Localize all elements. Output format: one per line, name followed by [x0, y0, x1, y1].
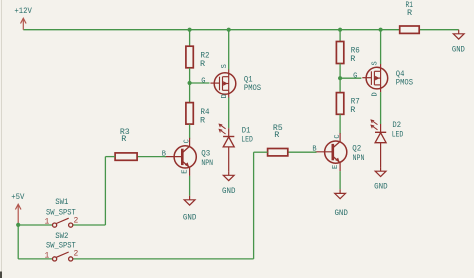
svg-text:NPN: NPN [201, 158, 213, 168]
svg-text:GND: GND [452, 45, 465, 55]
junction gate node Q4 [338, 76, 342, 80]
wire +5V to SW1 [18, 224, 52, 226]
pin label D Q1 [221, 94, 229, 98]
wire base Q3 [137, 156, 166, 158]
svg-text:R: R [200, 59, 205, 69]
transistor Q3 NPN [165, 138, 213, 176]
pin label B Q3 [162, 150, 166, 158]
resistor R3 [115, 127, 137, 160]
pin label E Q2 [332, 165, 340, 169]
junction rail/R2 [188, 28, 192, 32]
svg-text:S: S [372, 61, 380, 65]
svg-text:+5V: +5V [11, 192, 25, 202]
power +12V [14, 6, 32, 30]
power +5V [11, 192, 25, 225]
pin label G Q4 [353, 73, 357, 81]
svg-text:+12V: +12V [14, 6, 32, 16]
wire top +12V rail [23, 29, 458, 31]
ground below D2 [374, 167, 388, 192]
wire rail to Q4 source [380, 30, 382, 64]
transistor Q2 NPN [315, 133, 364, 171]
ground below D1 [222, 171, 236, 196]
svg-text:R: R [121, 134, 126, 144]
pin label E Q3 [181, 169, 189, 173]
diode D1 LED [219, 124, 253, 147]
svg-text:2: 2 [73, 250, 78, 259]
resistor R5 [268, 123, 288, 156]
svg-text:R: R [407, 8, 412, 18]
ground right of R1 [452, 30, 465, 55]
resistor R7 [336, 93, 359, 115]
svg-text:D: D [221, 94, 229, 98]
svg-text:G: G [353, 73, 357, 81]
ground below Q3 [183, 196, 197, 223]
wire gate Q1 [190, 82, 210, 84]
wire R3 to SW1 [73, 157, 115, 225]
pin label D Q4 [372, 92, 380, 96]
wire R6 to R7 [339, 64, 341, 93]
wire rail to Q1 source [228, 30, 230, 70]
junction rail/R6 [338, 28, 342, 32]
junction gate node Q1 [188, 81, 192, 85]
wire R5 to SW2 [73, 152, 268, 259]
resistor R4 [186, 103, 210, 126]
pin label S Q1 [221, 64, 229, 68]
svg-text:LED: LED [241, 135, 253, 145]
svg-text:PMOS: PMOS [396, 78, 413, 88]
pin number 2 SW2 [73, 250, 78, 259]
pin label B Q2 [312, 146, 316, 154]
svg-text:D: D [372, 92, 380, 96]
pin label G Q1 [201, 77, 205, 85]
svg-text:1: 1 [44, 251, 49, 260]
wire D2 to ground [380, 143, 382, 167]
svg-text:E: E [332, 165, 340, 169]
wire D1 to ground [228, 147, 230, 171]
pin number 1 SW2 [44, 251, 49, 260]
wire +5V down to SW2 [18, 225, 52, 259]
junction rail/Q1 [227, 28, 231, 32]
svg-text:S: S [221, 64, 229, 68]
junction +5V node [16, 223, 20, 227]
wire Q2 emitter to ground [339, 171, 341, 189]
wire base Q2 [288, 151, 317, 153]
sheet frame left edge [0, 0, 2, 278]
wire Q1 drain to D1 [228, 98, 230, 129]
svg-text:SW2: SW2 [55, 231, 68, 241]
svg-text:2: 2 [73, 217, 78, 226]
svg-text:R: R [350, 105, 355, 115]
svg-text:LED: LED [392, 130, 404, 140]
switch SW2 SW_SPST [46, 231, 76, 261]
svg-text:SW1: SW1 [55, 197, 68, 207]
junction rail/Q4 [379, 28, 383, 32]
wire Q3 emitter to ground [189, 176, 191, 196]
pin label C Q3 [183, 139, 191, 143]
svg-text:GND: GND [222, 186, 236, 196]
svg-text:R: R [274, 130, 279, 140]
wire gate Q4 [340, 77, 361, 79]
diode D2 LED [371, 120, 403, 143]
svg-text:R: R [350, 54, 355, 64]
wire R4 to Q3 collector [189, 124, 191, 138]
svg-text:GND: GND [183, 212, 197, 222]
transistor Q4 PMOS [362, 64, 413, 92]
wire rail to R6 [339, 30, 341, 42]
ground below Q2 [334, 189, 348, 218]
svg-text:NPN: NPN [353, 153, 365, 163]
svg-text:E: E [181, 169, 189, 173]
pin label S Q4 [372, 61, 380, 65]
switch SW1 SW_SPST [46, 197, 76, 227]
wire R7 to Q2 collector [339, 114, 341, 133]
wire Q4 drain to D2 [380, 92, 382, 124]
pin number 2 SW1 [73, 217, 78, 226]
wire R2 to R4 [189, 68, 191, 103]
resistor R2 [186, 46, 210, 69]
resistor R6 [336, 42, 359, 65]
svg-text:C: C [334, 134, 342, 138]
svg-text:SW_SPST: SW_SPST [46, 208, 76, 218]
svg-text:R: R [200, 115, 205, 125]
svg-text:C: C [183, 139, 191, 143]
wire rail to R2 [189, 30, 191, 47]
svg-text:1: 1 [44, 217, 49, 226]
svg-text:G: G [201, 77, 205, 85]
svg-text:PMOS: PMOS [244, 83, 261, 93]
svg-text:GND: GND [374, 182, 388, 192]
resistor R1 [400, 0, 420, 33]
op Q1 PMOS transistor [210, 69, 261, 97]
svg-text:GND: GND [334, 208, 348, 218]
pin label C Q2 [334, 134, 342, 138]
pin number 1 SW1 [44, 217, 49, 226]
svg-text:SW_SPST: SW_SPST [46, 241, 76, 251]
